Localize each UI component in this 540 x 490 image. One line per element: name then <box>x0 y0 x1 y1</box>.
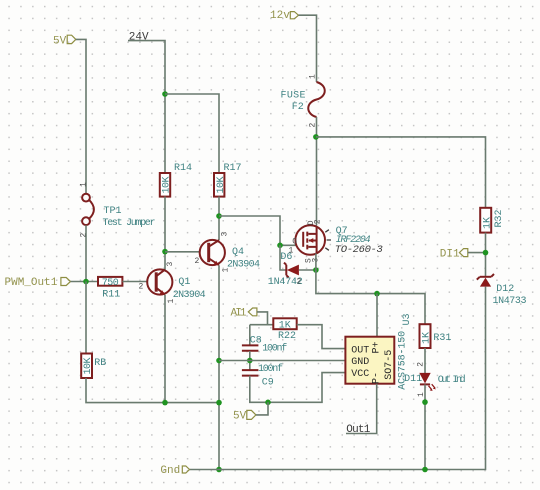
junction Q4 base branch <box>162 249 168 255</box>
Q7 drain pin name D and number 2 <box>307 219 323 225</box>
svg-text:2: 2 <box>416 362 425 367</box>
svg-text:U3: U3 <box>402 313 413 325</box>
svg-text:DI1: DI1 <box>440 248 460 260</box>
svg-text:AI1: AI1 <box>231 307 247 319</box>
svg-text:SO7-5: SO7-5 <box>384 350 395 380</box>
hierarchical label DI1 <box>440 248 468 260</box>
wire 5V label to riser <box>256 402 268 415</box>
svg-text:24V: 24V <box>129 31 149 43</box>
svg-text:R17: R17 <box>224 163 242 174</box>
svg-text:100nf: 100nf <box>258 363 283 375</box>
svg-text:12v: 12v <box>270 10 290 22</box>
svg-text:2: 2 <box>79 233 88 238</box>
svg-text:TP1: TP1 <box>104 206 122 217</box>
capacitor C9 <box>242 370 259 376</box>
wire U3 P- pin to Out1 <box>346 384 377 434</box>
svg-text:C9: C9 <box>262 377 274 388</box>
wire R22 to U3 OUT pin <box>297 325 346 349</box>
svg-text:P+: P+ <box>372 341 383 353</box>
resistor R11 <box>98 277 122 289</box>
svg-text:R11: R11 <box>102 289 120 300</box>
svg-text:C8: C8 <box>250 336 262 347</box>
LED D11 <box>419 373 436 391</box>
junction D11 gnd rail <box>422 467 428 473</box>
svg-text:2N3904: 2N3904 <box>227 259 260 270</box>
junction 5V riser node <box>265 400 271 406</box>
svg-text:1: 1 <box>79 182 88 187</box>
junction DI1 node <box>483 250 489 256</box>
hierarchical label Gnd <box>160 465 189 477</box>
wire D12 anode down to gnd rail corner <box>190 287 486 470</box>
junction fuse / R32 branch <box>313 134 319 140</box>
wire Q1 emitter down <box>164 295 166 403</box>
wire C8 column top <box>249 325 251 345</box>
wire PWM node down to RB <box>85 282 87 354</box>
svg-text:ACS758-150: ACS758-150 <box>398 331 409 390</box>
svg-text:Test Jumper: Test Jumper <box>103 218 156 229</box>
wire PWM_Out1 to R11 <box>71 281 99 283</box>
svg-text:TO-260-3: TO-260-3 <box>335 244 383 256</box>
mosfet Q7 <box>295 225 331 255</box>
junction C8-C9 gnd node <box>247 358 253 364</box>
svg-text:2: 2 <box>139 283 144 292</box>
junction Q1 emitter gnd row <box>162 400 168 406</box>
svg-text:GND: GND <box>351 357 369 368</box>
wire 12v to fuse <box>299 15 317 82</box>
wire R17 to Q4 collector <box>218 197 220 241</box>
wire DI1 to column <box>468 252 486 254</box>
svg-text:R22: R22 <box>278 331 296 342</box>
resistor R22 <box>273 318 296 331</box>
junction gate branch node <box>216 213 222 219</box>
svg-text:2: 2 <box>314 219 323 224</box>
svg-text:1K: 1K <box>279 321 291 332</box>
wire C9 down to 5V row <box>250 373 346 403</box>
svg-text:2: 2 <box>297 278 302 287</box>
svg-text:R14: R14 <box>174 163 192 174</box>
resistor R32 <box>480 208 493 233</box>
fuse F2 <box>308 82 325 117</box>
svg-text:10K: 10K <box>216 177 227 194</box>
junction D6 / source node <box>313 267 319 273</box>
svg-text:2: 2 <box>195 257 200 266</box>
wire base branch to Q4 <box>165 251 209 253</box>
junction D11 cathode node <box>422 399 428 405</box>
svg-text:10K: 10K <box>83 358 94 375</box>
junction P+ branch <box>374 291 380 297</box>
svg-text:Q4: Q4 <box>232 247 244 258</box>
svg-text:PWM_Out1: PWM_Out1 <box>5 277 58 289</box>
svg-text:3: 3 <box>221 232 230 237</box>
transistor Q4 <box>200 240 225 266</box>
svg-text:1K: 1K <box>482 217 493 229</box>
wire gate node down to D6 <box>280 245 286 270</box>
svg-text:G: G <box>292 238 297 247</box>
wire gate branch to Q7 <box>219 216 303 245</box>
wire Q4 emitter down to gnd wire <box>218 265 220 469</box>
svg-text:P-: P- <box>372 372 383 384</box>
resistor R17 <box>214 173 227 197</box>
Q7 source pin name S and number 3 <box>305 258 321 264</box>
wire top branch to R32 <box>316 137 486 208</box>
junction PWM node <box>83 279 89 285</box>
wire U3 GND pin row <box>219 360 345 362</box>
svg-text:10K: 10K <box>162 177 173 194</box>
wire R31 to LED D11 <box>424 348 426 373</box>
wire 24V to R14 column <box>128 41 165 173</box>
wire fuse to Q7 drain <box>316 117 318 226</box>
hierarchical label AI1 <box>231 307 257 319</box>
zener diode D12 <box>477 274 494 287</box>
svg-text:FUSE: FUSE <box>281 91 306 102</box>
wire D6 anode to source column <box>299 269 316 271</box>
wire R32 to DI1 node <box>485 233 487 277</box>
junction Q4 emitter / gnd rail <box>216 467 222 473</box>
wire C8 top to R22 <box>250 324 273 326</box>
svg-text:100nf: 100nf <box>262 342 287 354</box>
svg-text:R32: R32 <box>494 209 505 227</box>
capacitor C8 <box>242 345 259 350</box>
wire TP1 pin 2 down to PWM node <box>85 225 87 281</box>
hierarchical label 5V (top left) <box>53 35 76 47</box>
svg-text:750: 750 <box>102 278 119 289</box>
svg-text:D6: D6 <box>280 252 292 263</box>
IC U3 ACS758 <box>345 337 394 384</box>
svg-text:Q1: Q1 <box>178 277 190 288</box>
svg-text:Out Ind: Out Ind <box>438 374 466 386</box>
svg-text:VCC: VCC <box>351 369 369 380</box>
junction Q4 emitter / U3 gnd branch <box>216 358 222 364</box>
wire branch to R17 column <box>165 94 219 173</box>
svg-text:Out1: Out1 <box>346 424 370 436</box>
svg-text:5V: 5V <box>53 35 67 47</box>
svg-text:1K: 1K <box>422 332 433 344</box>
svg-text:RB: RB <box>94 358 106 369</box>
hierarchical label 5V (bottom) <box>233 410 256 422</box>
junction Q4 emitter / left gnd row <box>216 400 222 406</box>
wire Q7 source down and right to R31 <box>316 253 425 324</box>
zener diode D6 <box>284 263 299 278</box>
test point TP1 <box>82 194 94 225</box>
resistor RB <box>81 354 94 379</box>
transistor Q1 <box>147 269 172 295</box>
svg-text:1N4733: 1N4733 <box>493 296 527 307</box>
svg-text:OUT: OUT <box>351 346 369 357</box>
resistor R14 <box>160 173 173 197</box>
resistor R31 <box>420 324 433 348</box>
svg-text:F2: F2 <box>292 102 304 113</box>
junction gate-zener node <box>277 243 283 249</box>
wire RB down and right to gnd row <box>86 378 219 403</box>
svg-text:D12: D12 <box>496 284 514 295</box>
wire R14 to Q1 collector <box>164 197 166 270</box>
svg-text:5V: 5V <box>233 411 247 423</box>
wire 5V label to TP1 pin 1 <box>76 39 86 193</box>
wire P+ branch down to U3 <box>376 294 378 337</box>
svg-text:R31: R31 <box>433 333 451 344</box>
hierarchical label PWM_Out1 <box>5 277 71 289</box>
wire C8 to C9 <box>249 351 251 370</box>
svg-text:Gnd: Gnd <box>160 465 180 477</box>
junction 24V branch node <box>162 91 168 97</box>
wire R11 to Q1 base <box>122 281 156 283</box>
svg-text:2N3904: 2N3904 <box>173 290 206 301</box>
wire AI1 to R22 row <box>257 312 268 325</box>
svg-text:3: 3 <box>166 262 175 267</box>
hierarchical label 12v <box>270 10 299 22</box>
svg-text:1: 1 <box>309 74 318 79</box>
wire D11 cathode down <box>424 384 426 469</box>
